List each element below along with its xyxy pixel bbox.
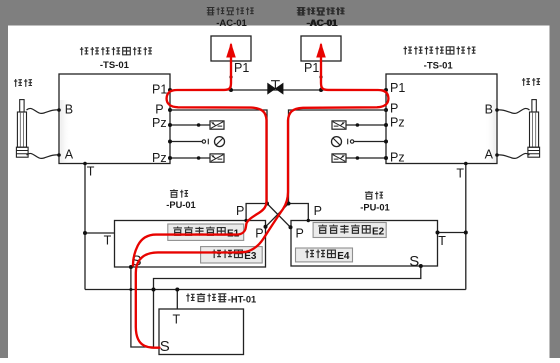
svg-text:-TS-01: -TS-01 — [424, 61, 454, 72]
svg-text:A: A — [65, 148, 74, 162]
svg-text:T: T — [173, 313, 181, 327]
svg-text:E2: E2 — [372, 226, 385, 237]
svg-text:S: S — [409, 253, 419, 270]
svg-text:Pz: Pz — [152, 116, 167, 130]
svg-text:P1: P1 — [234, 61, 249, 75]
svg-text:-AC-01: -AC-01 — [306, 18, 337, 29]
svg-text:P: P — [296, 227, 304, 241]
svg-text:-PU-01: -PU-01 — [166, 200, 195, 210]
svg-text:Pz: Pz — [390, 150, 405, 164]
svg-text:Pz: Pz — [152, 151, 167, 165]
svg-text:Pz: Pz — [390, 116, 405, 130]
svg-text:P1: P1 — [152, 83, 167, 97]
svg-text:T: T — [438, 234, 446, 248]
svg-text:T: T — [104, 234, 112, 248]
svg-text:B: B — [65, 103, 73, 117]
svg-text:-AC-01: -AC-01 — [216, 18, 247, 29]
svg-text:T: T — [456, 167, 464, 181]
svg-text:-TS-01: -TS-01 — [100, 60, 130, 71]
svg-text:B: B — [485, 103, 493, 117]
svg-text:P1: P1 — [304, 61, 319, 75]
svg-text:-PU-01: -PU-01 — [360, 203, 389, 213]
svg-text:P: P — [155, 102, 163, 116]
svg-text:P: P — [314, 204, 322, 218]
svg-text:A: A — [485, 148, 494, 162]
svg-text:E4: E4 — [337, 251, 350, 262]
svg-text:-HT-01: -HT-01 — [228, 294, 256, 304]
svg-text:P: P — [236, 204, 244, 218]
svg-text:T: T — [87, 165, 95, 179]
svg-text:P: P — [390, 101, 398, 115]
svg-text:S: S — [160, 338, 170, 355]
svg-text:P1: P1 — [390, 81, 405, 95]
